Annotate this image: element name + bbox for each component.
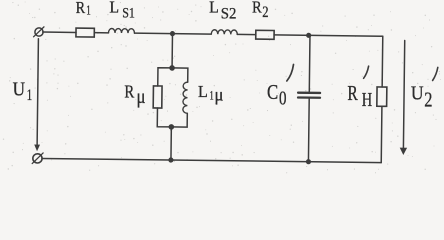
wire middle branch to bottom rail (170, 127, 172, 160)
wire right arm L1mu top (172, 68, 188, 82)
svg-text:R: R (76, 0, 86, 17)
label RH prime (347, 66, 372, 111)
inductor LS1 (108, 28, 134, 33)
node split bottom (169, 124, 175, 130)
svg-text:1: 1 (210, 89, 214, 103)
wire middle branch from top rail (171, 34, 173, 68)
svg-text:1: 1 (27, 87, 33, 104)
wire capacitor branch top (308, 35, 311, 92)
terminal input top (34, 27, 44, 37)
wire left arm Rmu bottom (157, 108, 171, 127)
label L1mu (198, 82, 223, 105)
schematic graphics, slightly rotated like the scan (32, 27, 409, 168)
svg-text:S2: S2 (221, 5, 237, 22)
node junction top-2 (306, 33, 311, 38)
resistor RH box (377, 87, 387, 106)
svg-text:S1: S1 (122, 6, 135, 22)
svg-text:0: 0 (279, 87, 287, 109)
arrow U2 (400, 40, 409, 155)
svg-text:L: L (209, 0, 219, 17)
label LS1 (109, 0, 135, 22)
arrow U1 (34, 39, 41, 152)
wire top rail segment 1 (43, 31, 76, 33)
label U1 (13, 79, 33, 104)
label Rmu (124, 81, 145, 108)
wire (134, 32, 211, 35)
resistor Rmu box (153, 86, 162, 108)
svg-text:2: 2 (262, 4, 268, 21)
inductor LS2 (211, 30, 237, 35)
wire (94, 32, 108, 34)
label R2 (252, 0, 269, 21)
svg-text:C: C (267, 80, 278, 104)
label C0 prime (267, 65, 294, 110)
wire right arm L1mu bottom (171, 113, 187, 127)
svg-text:U: U (411, 83, 424, 105)
wire capacitor branch bottom (307, 99, 310, 162)
wire (237, 33, 255, 35)
label LS2 (209, 0, 236, 22)
svg-text:L: L (198, 82, 208, 101)
capacitor C0 plates (298, 93, 320, 98)
wire RH to bottom rail (380, 106, 383, 162)
inductor L1mu (183, 82, 188, 113)
resistor R1 (76, 28, 94, 37)
svg-text:U: U (13, 79, 25, 100)
wire right edge down to RH (381, 36, 384, 87)
svg-text:μ: μ (215, 85, 224, 105)
svg-text:1: 1 (86, 2, 91, 17)
svg-text:μ: μ (137, 87, 146, 108)
node split top (169, 65, 175, 71)
svg-text:2: 2 (424, 87, 432, 111)
svg-text:R: R (252, 0, 262, 17)
wire left arm Rmu top (158, 68, 172, 86)
label R1 (76, 0, 91, 17)
wire bottom rail (42, 158, 381, 162)
svg-text:H: H (362, 89, 373, 111)
node junction bottom-1 (168, 157, 173, 162)
terminal input bottom (32, 153, 43, 164)
svg-text:L: L (109, 0, 119, 17)
svg-text:R: R (347, 83, 358, 105)
svg-text:R: R (124, 81, 134, 101)
label U2 prime (411, 67, 438, 111)
node junction bottom-2 (306, 159, 311, 164)
wire top rail to right corner (274, 35, 383, 36)
node junction top-1 (170, 31, 175, 36)
resistor R2 (256, 30, 274, 39)
